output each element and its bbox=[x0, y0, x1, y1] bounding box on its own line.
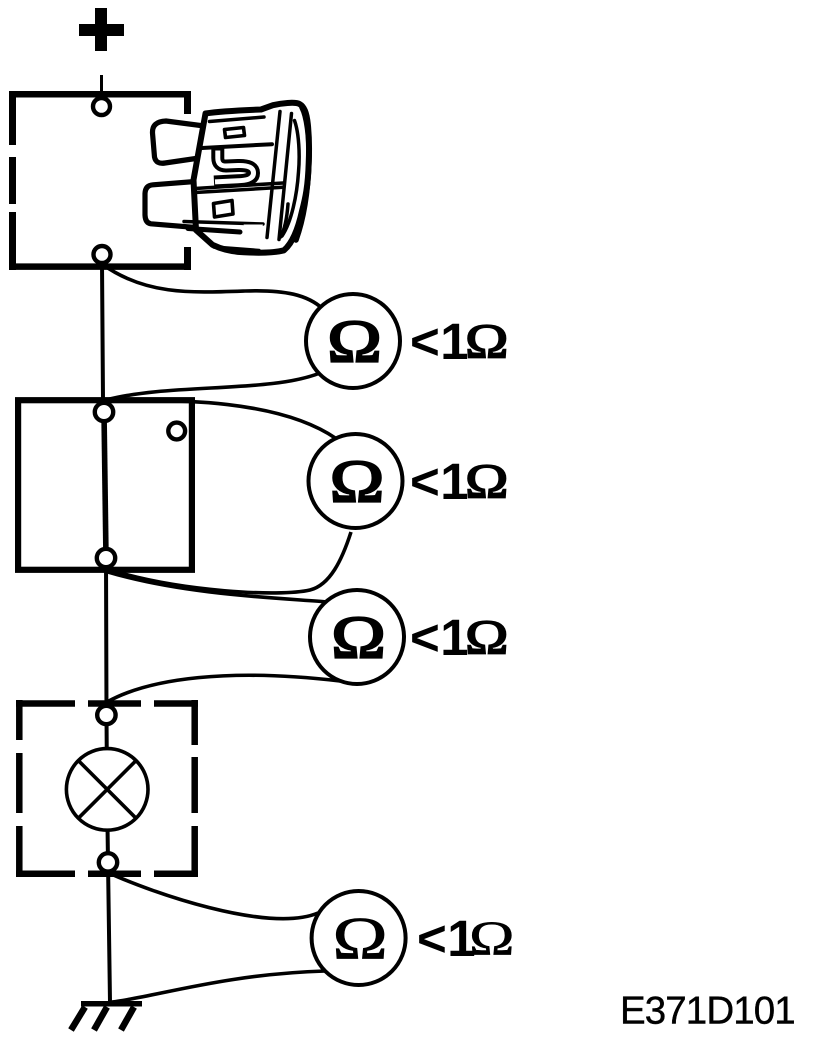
svg-text:<1: <1 bbox=[417, 910, 476, 967]
svg-text:Ω: Ω bbox=[332, 905, 387, 972]
svg-text:Ω: Ω bbox=[469, 911, 514, 965]
svg-text:Ω: Ω bbox=[330, 447, 384, 515]
svg-text:<1: <1 bbox=[410, 313, 469, 370]
svg-text:Ω: Ω bbox=[465, 610, 508, 665]
svg-text:<1: <1 bbox=[410, 453, 469, 510]
svg-text:Ω: Ω bbox=[331, 603, 385, 671]
svg-text:Ω: Ω bbox=[465, 454, 508, 509]
svg-text:E371D101: E371D101 bbox=[620, 990, 795, 1033]
svg-text:Ω: Ω bbox=[465, 314, 508, 369]
svg-text:Ω: Ω bbox=[327, 307, 381, 375]
svg-text:<1: <1 bbox=[410, 609, 469, 666]
